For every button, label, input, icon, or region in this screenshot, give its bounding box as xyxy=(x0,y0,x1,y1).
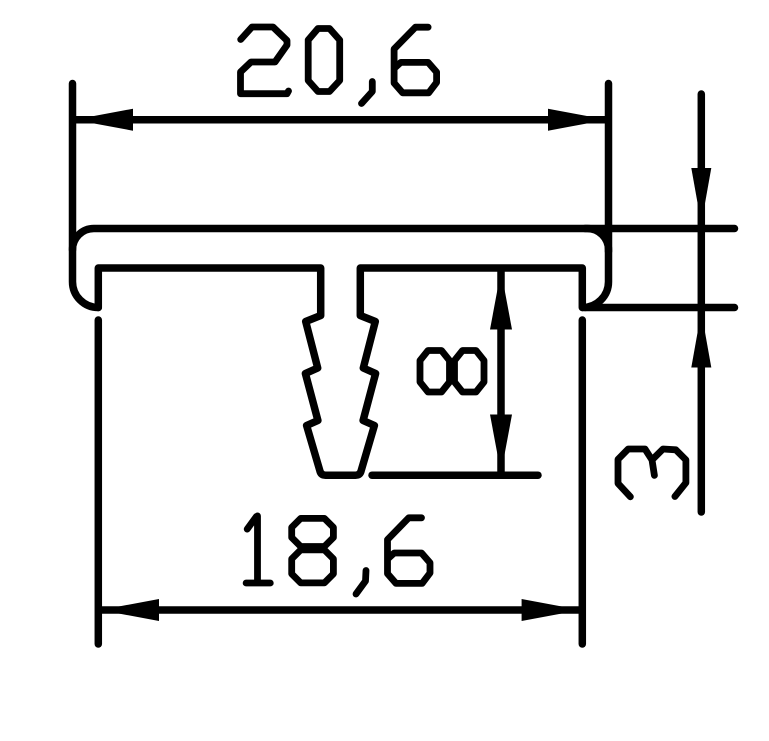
profile inner outline with barbed leg xyxy=(98,268,582,475)
extension line bottom for dim 3 xyxy=(585,304,735,312)
dimension line 8 vertical xyxy=(497,271,505,473)
text 20.6: digit 6 xyxy=(394,27,437,93)
text 18.6: digit 8 xyxy=(292,518,334,583)
extension line right of dim 18.6 xyxy=(579,320,587,644)
text 18.6: comma xyxy=(356,571,366,595)
dimension line 18.6 xyxy=(101,606,580,614)
dimension line 3 middle segment xyxy=(698,229,706,308)
text 3 vertical (rotated) xyxy=(618,449,686,497)
arrowhead up of dim 8 xyxy=(490,271,512,330)
text 18.6: digit 6 xyxy=(388,518,431,584)
arrowhead down of dim 3 xyxy=(691,168,711,224)
text 20.6: digit 0 xyxy=(308,29,340,92)
arrowhead right of dim 20.6 xyxy=(548,109,607,131)
extension line right of dim 20.6 xyxy=(605,84,613,252)
arrowhead down of dim 8 xyxy=(490,415,512,474)
extension line left of dim 20.6 xyxy=(69,84,77,251)
text 18.6: digit 1 xyxy=(246,516,270,583)
arrowhead right of dim 18.6 xyxy=(522,599,581,621)
dimension line 20.6 xyxy=(76,116,605,124)
profile cap outer outline with end hooks xyxy=(73,229,609,308)
arrowhead left of dim 20.6 xyxy=(74,109,133,131)
dimension line 3 upper shaft xyxy=(698,94,706,229)
arrowhead up of dim 3 xyxy=(691,312,711,368)
extension line left of dim 18.6 xyxy=(95,320,103,644)
datum line at leg bottom for dim 8 xyxy=(372,471,538,479)
extension line top for dim 3 xyxy=(585,225,735,233)
dimension line 3 lower shaft xyxy=(698,308,706,513)
text 8 vertical (rotated) xyxy=(420,351,484,393)
arrowhead left of dim 18.6 xyxy=(100,599,159,621)
text 20.6: comma xyxy=(362,82,373,104)
text 20.6: digit 2 xyxy=(241,27,289,94)
